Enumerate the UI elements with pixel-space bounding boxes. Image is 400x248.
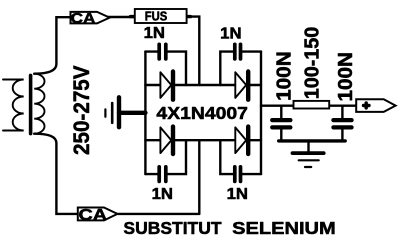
svg-text:CA: CA bbox=[71, 11, 96, 27]
svg-text:4X1N4007: 4X1N4007 bbox=[156, 103, 248, 123]
svg-text:SUBSTITUT: SUBSTITUT bbox=[123, 218, 221, 238]
svg-text:CA: CA bbox=[79, 207, 108, 224]
svg-text:100N: 100N bbox=[274, 51, 296, 101]
svg-text:1N: 1N bbox=[220, 25, 241, 42]
svg-text:1N: 1N bbox=[227, 186, 248, 203]
svg-text:SELENIUM: SELENIUM bbox=[232, 218, 336, 238]
svg-text:FUS: FUS bbox=[145, 9, 168, 24]
svg-text:100N: 100N bbox=[335, 52, 357, 102]
svg-text:250-275V: 250-275V bbox=[69, 65, 94, 155]
svg-text:100-150: 100-150 bbox=[302, 27, 324, 100]
svg-text:1N: 1N bbox=[152, 186, 173, 203]
svg-text:1N: 1N bbox=[144, 25, 165, 42]
